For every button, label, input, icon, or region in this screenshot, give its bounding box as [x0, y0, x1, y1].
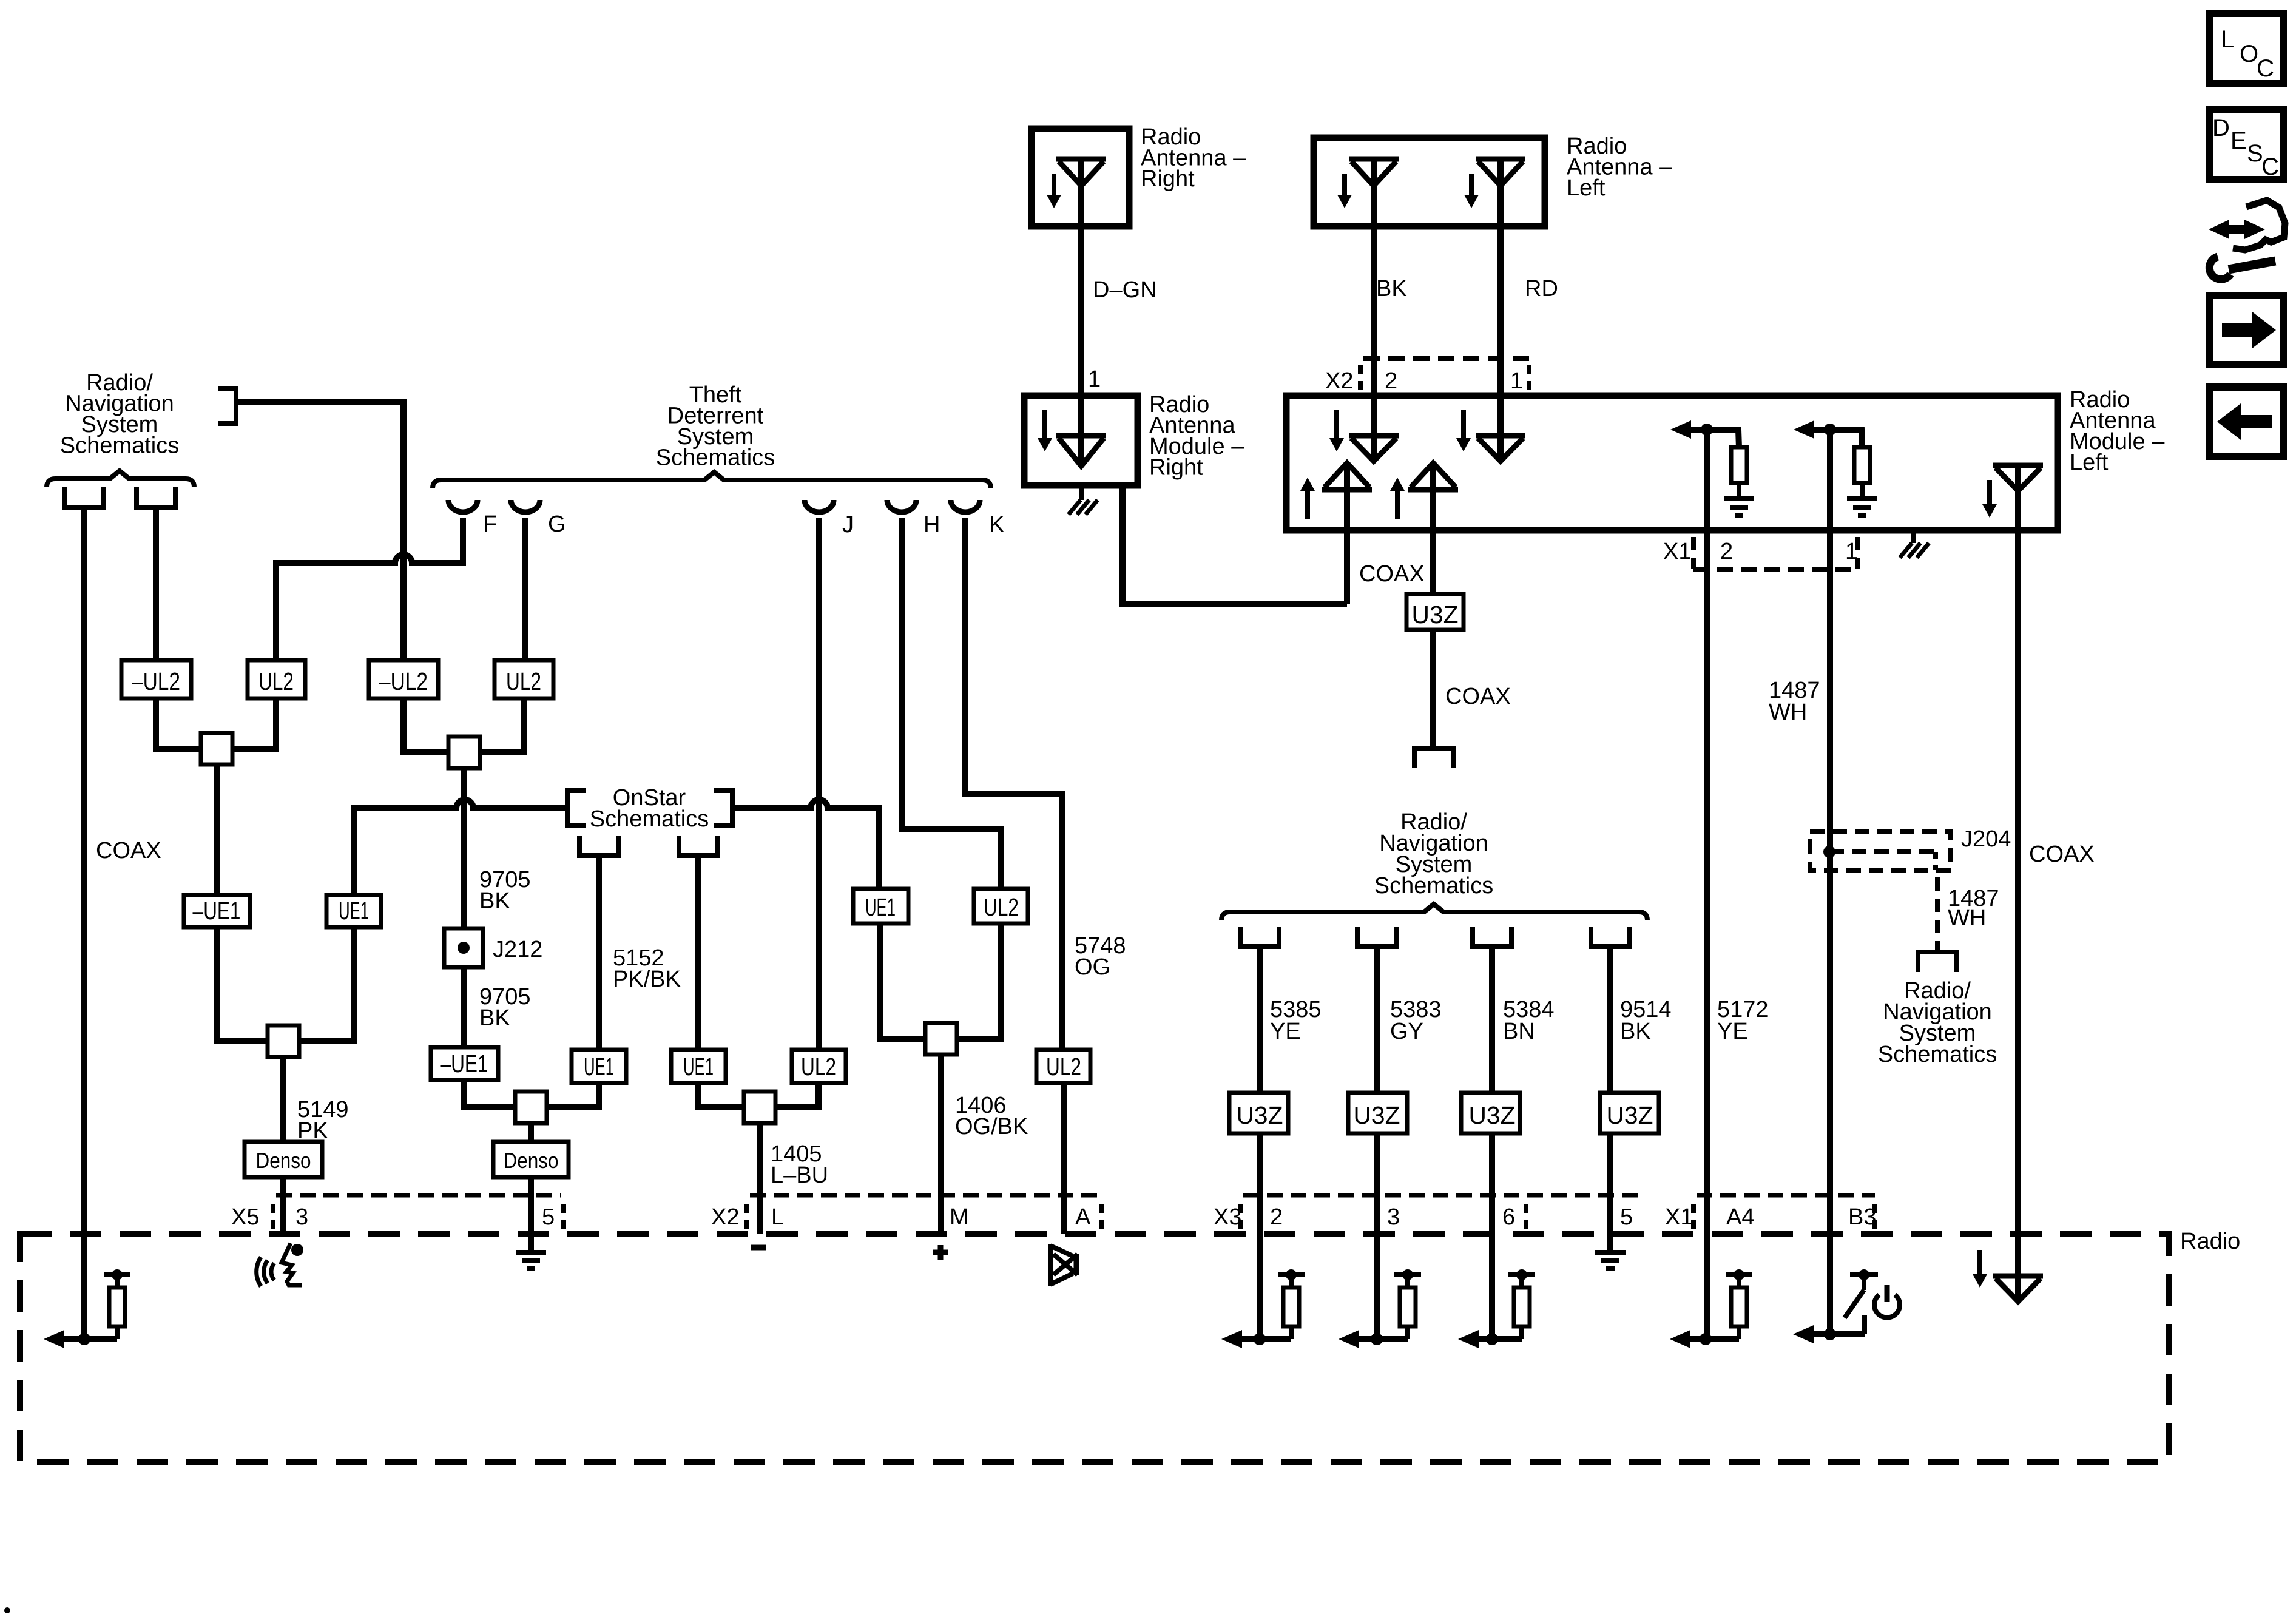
pin K [951, 500, 980, 512]
wire splice 1 down [214, 765, 220, 895]
svg-text:UL2: UL2 [984, 893, 1019, 921]
svg-text:GY: GY [1390, 1019, 1423, 1044]
svg-text:D–GN: D–GN [1093, 277, 1157, 303]
connector line X1 [1697, 1193, 1875, 1198]
box UE1 r2b [671, 1050, 726, 1083]
svg-text:3: 3 [295, 1204, 308, 1230]
connector line X3 [1243, 1193, 1638, 1198]
svg-text:1: 1 [1088, 366, 1101, 392]
svg-text:–UE1: –UE1 [193, 897, 241, 925]
svg-text:BK: BK [1376, 276, 1407, 302]
icon LOC box [2210, 13, 2283, 84]
svg-text:COAX: COAX [96, 838, 161, 863]
box UL2 r2a [792, 1050, 846, 1083]
wire OnStar right [734, 800, 879, 889]
wire from top left connector [236, 402, 403, 660]
wire D-GN [1078, 159, 1084, 465]
pin G [511, 500, 540, 512]
antenna up symbol 2 in module left [1408, 487, 1458, 493]
svg-text:–UE1: –UE1 [441, 1050, 488, 1078]
svg-text:X1: X1 [1665, 1204, 1693, 1230]
icon arrow-left box [2210, 387, 2283, 456]
offpage connector OnStar right [714, 791, 732, 826]
wire UE1 r1 to splice [880, 923, 925, 1039]
svg-text:2: 2 [1720, 539, 1733, 564]
wire UL2 r1 to splice [957, 923, 1001, 1039]
svg-text:L: L [771, 1204, 784, 1230]
wire Denso 2 to pin 5 [528, 1177, 534, 1252]
svg-text:U3Z: U3Z [1412, 601, 1459, 629]
svg-text:D: D [2212, 115, 2230, 141]
svg-text:G: G [548, 511, 566, 537]
svg-text:Denso: Denso [256, 1148, 311, 1173]
connector separator 928 [561, 1204, 566, 1229]
radio internal antenna [1993, 1274, 2043, 1279]
wire U3Z 1 to pin 2 [1257, 1133, 1263, 1339]
wire antenna up 1 to coax corner [1344, 463, 1350, 604]
wire J down [816, 518, 822, 1050]
wire RD [1497, 159, 1504, 461]
icon arrow-right box [2210, 295, 2283, 365]
icon wrench-arrow [2221, 225, 2252, 234]
wire -UE1 1 to splice [217, 927, 268, 1041]
svg-text:U3Z: U3Z [1354, 1101, 1400, 1129]
antenna symbol 2 in left antenna box [1476, 157, 1525, 162]
wire 1487 WH [1827, 430, 1833, 1334]
radio internal pin 3 structure [1339, 1330, 1359, 1348]
svg-text:Left: Left [1567, 175, 1606, 201]
svg-text:Schematics: Schematics [1878, 1042, 1997, 1067]
wire 9514 BK [1607, 947, 1613, 1093]
wire UE1 r2a to splice [547, 1083, 599, 1107]
connector X1 module left dashed [1691, 537, 1696, 569]
pin H [887, 500, 916, 512]
radio antenna left box [1314, 138, 1545, 226]
wire -UL2 2 to splice [403, 698, 448, 752]
splice 5 [268, 1025, 299, 1057]
connector line X2 [750, 1193, 1099, 1198]
box -UL2 2 [369, 660, 438, 698]
svg-text:WH: WH [1948, 905, 1986, 931]
pin J [805, 500, 834, 512]
wire G to UL2 [522, 518, 528, 660]
svg-text:C: C [2257, 55, 2274, 82]
svg-text:F: F [483, 511, 497, 537]
svg-text:COAX: COAX [1445, 684, 1511, 709]
internal arrow-resistor 2 in module left [1794, 420, 1814, 439]
down arrow right in module left [1987, 480, 1992, 507]
antenna up symbol 1 in module left [1322, 487, 1372, 493]
svg-text:UE1: UE1 [865, 893, 896, 921]
svg-text:UE1: UE1 [683, 1053, 714, 1081]
brace theft deterrent [433, 472, 991, 488]
box -UL2 1 [121, 660, 191, 698]
radio internal B3 switch [1793, 1325, 1814, 1343]
svg-text:Schematics: Schematics [656, 445, 775, 471]
wire antenna up 2 to U3Z [1430, 463, 1436, 594]
wire -UL2 1 to splice [156, 698, 201, 749]
wire U3Z 3 to pin 6 [1489, 1133, 1495, 1339]
wire COAX module right to left [1123, 485, 1347, 604]
icon DESC box [2210, 109, 2283, 180]
svg-text:X5: X5 [231, 1204, 259, 1230]
wire splice 2 down to J212 [461, 768, 467, 928]
connector separator 3090 [1872, 1204, 1877, 1229]
offpage connector X3 1 [1240, 927, 1279, 947]
wire UL2 1 to splice [232, 698, 276, 749]
offpage connector below U3Z coax [1414, 748, 1453, 768]
connector separator 1230 [744, 1204, 749, 1229]
connector separator 2791 [1691, 1204, 1696, 1229]
wire COAX right [2015, 467, 2021, 1301]
svg-text:UL2: UL2 [801, 1053, 836, 1081]
wire OnStar conn 1 down [596, 856, 602, 1050]
svg-text:O: O [2240, 41, 2258, 67]
svg-text:C: C [2261, 154, 2279, 180]
antenna down symbol right in module left [1993, 463, 2043, 468]
svg-text:U3Z: U3Z [1237, 1101, 1283, 1129]
svg-text:UE1: UE1 [339, 897, 369, 925]
box UE1 r1 [853, 889, 908, 923]
svg-text:Denso: Denso [504, 1148, 559, 1173]
box U3Z 1 [1229, 1093, 1288, 1133]
connector separator 1815 [1099, 1204, 1104, 1229]
wire UL2 r2b to pin A [1061, 1083, 1067, 1234]
svg-text:Schematics: Schematics [590, 806, 709, 832]
svg-text:BK: BK [1620, 1019, 1651, 1044]
svg-text:X1: X1 [1663, 539, 1691, 564]
splice J204 dashed box [1810, 831, 1951, 870]
svg-text:Schematics: Schematics [1374, 873, 1493, 899]
svg-text:Right: Right [1149, 455, 1203, 481]
radio internal pin 6 structure [1458, 1330, 1479, 1348]
svg-text:5: 5 [1620, 1204, 1633, 1230]
box Denso 2 [493, 1142, 569, 1177]
box Denso 1 [245, 1142, 322, 1177]
pin F [448, 500, 478, 512]
wire splice 4 to pin L [757, 1123, 763, 1234]
svg-text:COAX: COAX [1359, 561, 1425, 587]
splice 3 [515, 1092, 547, 1123]
svg-text:S: S [2247, 140, 2263, 167]
box U3Z 2 [1348, 1093, 1407, 1133]
box U3Z 4 [1600, 1093, 1659, 1133]
offpage connector OnStar left [567, 791, 586, 826]
svg-text:A4: A4 [1726, 1204, 1754, 1230]
svg-text:YE: YE [1717, 1019, 1748, 1044]
offpage connector below OnStar 2 [679, 836, 718, 856]
box UE1 r2a [572, 1050, 626, 1083]
U3Z coax box [1406, 594, 1464, 630]
brace radio nav middle [1221, 904, 1647, 920]
splice 6 [925, 1023, 957, 1055]
svg-text:Schematics: Schematics [60, 433, 179, 459]
svg-text:J: J [842, 512, 854, 538]
svg-text:RD: RD [1525, 276, 1558, 302]
wire splice 3 to Denso 2 [528, 1123, 534, 1142]
antenna symbol in module right [1056, 433, 1106, 439]
svg-text:1: 1 [1510, 368, 1523, 394]
radio antenna right box [1032, 129, 1129, 226]
radio antenna module left box [1286, 396, 2058, 530]
wire UL2 r2a to splice [775, 1083, 819, 1107]
svg-text:A: A [1075, 1204, 1091, 1230]
svg-text:X3: X3 [1214, 1204, 1241, 1230]
wire left 2 to -UL2 [153, 507, 159, 660]
down arrow 1 in module left [1334, 410, 1339, 441]
wire U3Z 2 to pin 3 [1374, 1133, 1380, 1339]
box UL2 2 [495, 660, 553, 698]
antenna symbol in right antenna box [1056, 157, 1106, 162]
svg-text:2: 2 [1385, 368, 1397, 394]
offpage connector left 2 [137, 487, 175, 507]
wire OnStar left [354, 800, 566, 895]
antenna down symbol 2 in module left [1476, 433, 1525, 439]
offpage connector below OnStar 1 [579, 836, 618, 856]
wire COAX below U3Z [1430, 630, 1436, 748]
svg-text:2: 2 [1270, 1204, 1283, 1230]
radio internal antenna down arrow [1977, 1250, 1982, 1277]
splice J212 [444, 928, 483, 967]
splice 2 [448, 737, 480, 768]
connector separator 2515 [1524, 1204, 1528, 1229]
up arrow 1 in module left [1305, 488, 1310, 519]
svg-text:OG/BK: OG/BK [955, 1114, 1028, 1139]
speaker mute icon [1048, 1244, 1053, 1286]
box UE1 1 [326, 895, 381, 927]
svg-text:X2: X2 [1325, 368, 1353, 394]
svg-text:–UL2: –UL2 [132, 667, 180, 695]
wire Denso 1 to pin 3 [280, 1177, 286, 1234]
svg-text:OG: OG [1075, 954, 1110, 980]
svg-text:J204: J204 [1961, 826, 2011, 852]
wire COAX left [81, 507, 87, 1339]
offpage connector left 1 [65, 487, 104, 507]
wire 5172 YE [1704, 430, 1710, 1340]
svg-text:X2: X2 [711, 1204, 739, 1230]
box -UE1 2 [431, 1047, 498, 1080]
svg-text:L: L [2221, 26, 2234, 53]
offpage connector X3 2 [1357, 927, 1396, 947]
ground pin 5 right [1595, 1250, 1626, 1255]
svg-text:M: M [950, 1204, 969, 1230]
wire 5385 YE [1257, 947, 1263, 1093]
svg-text:COAX: COAX [2029, 842, 2095, 867]
svg-text:Right: Right [1141, 166, 1195, 192]
svg-text:H: H [923, 512, 940, 538]
wire BK [1371, 159, 1377, 461]
wire K down [965, 518, 1062, 1050]
ground pin 5 left [516, 1250, 546, 1255]
offpage connector top left [218, 388, 236, 424]
svg-text:1: 1 [1845, 539, 1858, 564]
svg-text:6: 6 [1502, 1204, 1515, 1230]
up arrow 2 in module left [1395, 488, 1400, 519]
down arrow 1 in left antenna box [1342, 174, 1347, 197]
power symbol [1874, 1295, 1900, 1317]
box U3Z 3 [1461, 1093, 1520, 1133]
box UL2 r1 [974, 889, 1028, 923]
antenna down symbol 1 in module left [1349, 433, 1399, 439]
wire UE1 r2b to splice [698, 1083, 745, 1107]
offpage connector X3 4 [1591, 927, 1630, 947]
connector separator 2044 [1238, 1204, 1243, 1229]
svg-text:E: E [2230, 127, 2247, 154]
svg-text:PK/BK: PK/BK [613, 967, 681, 992]
radio internal pin A4 structure [1670, 1330, 1690, 1348]
svg-text:UL2: UL2 [258, 667, 294, 695]
svg-text:BN: BN [1503, 1019, 1535, 1044]
offpage connector X3 3 [1473, 927, 1511, 947]
down arrow in right antenna box [1052, 174, 1056, 197]
wire 5383 GY [1374, 947, 1380, 1093]
connector line X5 [276, 1193, 561, 1198]
connector X2 antenna left dashed [1363, 356, 1529, 361]
plus symbol [933, 1250, 948, 1255]
down arrow 2 in module left [1461, 410, 1466, 441]
wire splice 5 to Denso [280, 1057, 286, 1142]
wire UE1 1 to splice [299, 927, 354, 1041]
svg-text:L–BU: L–BU [771, 1163, 828, 1188]
svg-text:Left: Left [2070, 450, 2109, 476]
dashed wire 1487 WH to offpage [1935, 877, 1940, 952]
wire U3Z 4 to pin 5 [1607, 1133, 1613, 1252]
svg-text:U3Z: U3Z [1469, 1101, 1516, 1129]
svg-text:B3: B3 [1848, 1204, 1876, 1230]
splice 1 [201, 733, 232, 765]
wire splice 6 to pin M [938, 1055, 944, 1234]
svg-text:UL2: UL2 [1046, 1053, 1081, 1081]
radio antenna module right box [1024, 396, 1138, 485]
svg-text:BK: BK [479, 1005, 510, 1031]
splice 4 [744, 1092, 775, 1123]
wire UL2 2 to splice [480, 698, 524, 752]
wire -UE1 2 to splice [464, 1080, 515, 1107]
svg-text:5: 5 [542, 1204, 555, 1230]
chassis ground below module left [1911, 530, 1916, 543]
antenna symbol 1 in left antenna box [1349, 157, 1399, 162]
mark bottom left [4, 1607, 10, 1613]
svg-text:UE1: UE1 [584, 1053, 614, 1081]
wire OnStar conn 2 down [695, 856, 701, 1050]
svg-text:K: K [989, 512, 1004, 538]
svg-text:–UL2: –UL2 [379, 667, 428, 695]
wire J212 down [461, 967, 467, 1047]
down arrow 2 in left antenna box [1469, 174, 1474, 197]
brace radio nav left [47, 471, 194, 487]
chassis ground below module right [1079, 485, 1084, 500]
svg-text:UL2: UL2 [506, 667, 541, 695]
wire F to UL2 [276, 518, 463, 660]
svg-text:3: 3 [1387, 1204, 1400, 1230]
box -UE1 1 [184, 895, 250, 927]
svg-text:YE: YE [1270, 1019, 1301, 1044]
radio internal left coax arrow [44, 1330, 64, 1348]
svg-text:Radio: Radio [2180, 1229, 2240, 1254]
radio internal pin 2 structure [1221, 1330, 1242, 1348]
minus symbol [751, 1245, 766, 1251]
wire 5384 BN [1489, 947, 1495, 1093]
radio dashed box [20, 1234, 2169, 1462]
offpage connector below J204 [1918, 952, 1957, 972]
box UL2 r2b [1036, 1050, 1090, 1083]
svg-text:BK: BK [479, 888, 510, 914]
svg-text:U3Z: U3Z [1607, 1101, 1653, 1129]
wire H down [902, 518, 1001, 889]
box UL2 1 [248, 660, 305, 698]
down arrow in module right [1042, 410, 1047, 441]
internal arrow-resistor 1 in module left [1670, 420, 1691, 439]
svg-text:J212: J212 [493, 937, 542, 962]
microphone icon [291, 1244, 303, 1256]
svg-text:WH: WH [1769, 700, 1807, 725]
connector separator 450 [271, 1204, 275, 1229]
